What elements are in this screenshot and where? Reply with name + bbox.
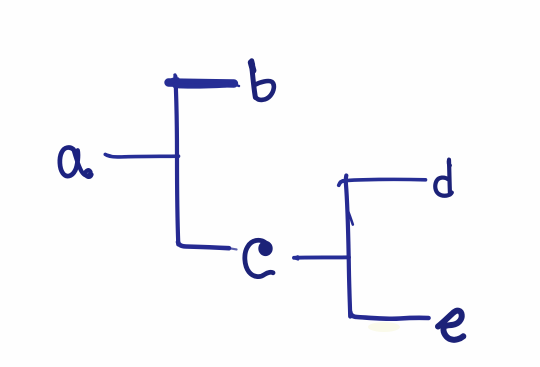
- node d: [435, 160, 452, 196]
- node b: [251, 61, 274, 100]
- bracket1 top branch: [168, 75, 240, 86]
- bracket1 bottom branch: [178, 242, 237, 249]
- bracket1 vertical: [175, 77, 178, 245]
- node a: [60, 147, 92, 176]
- bracket2 bottom branch: [350, 312, 428, 332]
- node e: [438, 311, 463, 340]
- wire c to bracket2: [293, 256, 349, 259]
- wire a to bracket1: [105, 154, 179, 157]
- node c: [245, 240, 273, 276]
- bracket2 vertical: [346, 176, 353, 317]
- bracket2 top branch: [339, 179, 426, 185]
